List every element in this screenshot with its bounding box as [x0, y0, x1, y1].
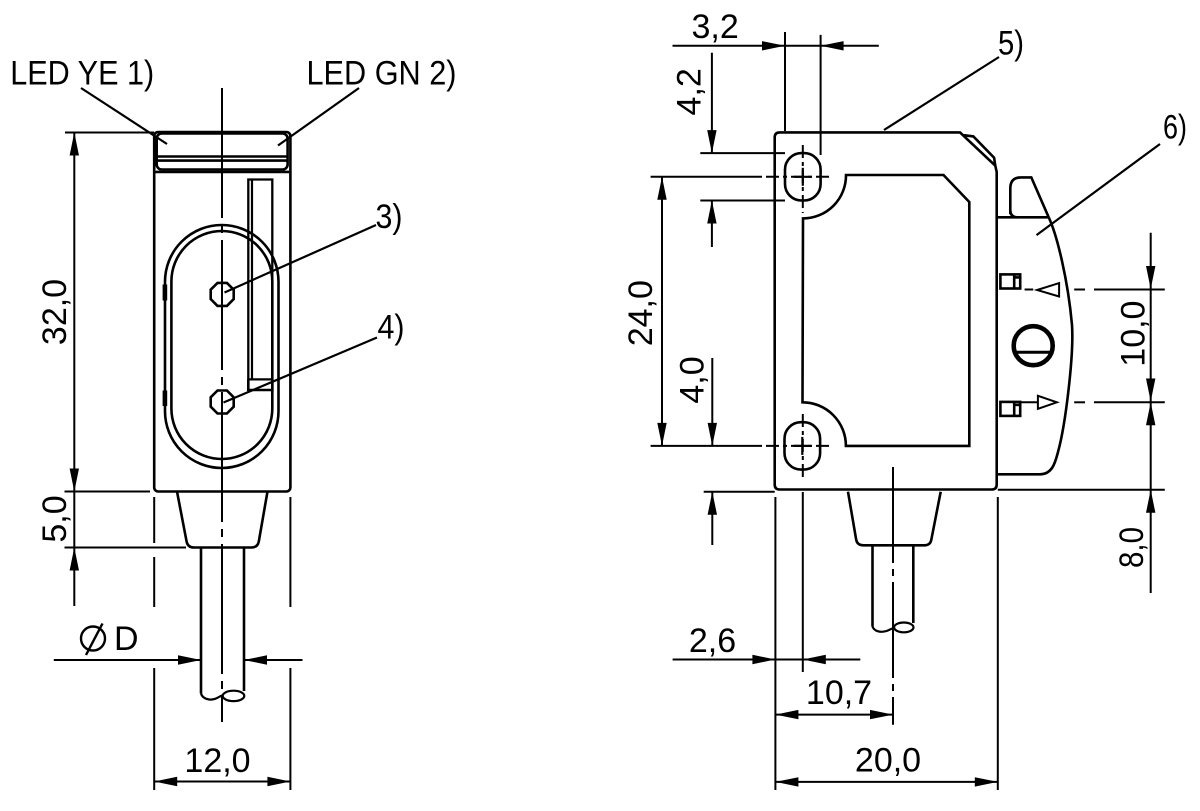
svg-text:6): 6) [1163, 109, 1187, 147]
svg-text:D: D [114, 620, 139, 658]
svg-text:3,2: 3,2 [692, 8, 739, 46]
svg-text:3): 3) [376, 198, 403, 236]
svg-text:20,0: 20,0 [855, 742, 921, 780]
svg-text:LED GN 2): LED GN 2) [307, 55, 457, 93]
svg-text:4,2: 4,2 [671, 68, 709, 115]
svg-text:4,0: 4,0 [674, 356, 712, 403]
svg-text:4): 4) [378, 309, 405, 347]
svg-text:5): 5) [998, 25, 1024, 63]
svg-text:8,0: 8,0 [1113, 527, 1151, 568]
svg-text:5,0: 5,0 [36, 495, 74, 542]
svg-text:24,0: 24,0 [622, 280, 660, 346]
svg-text:10,0: 10,0 [1114, 301, 1152, 367]
svg-text:12,0: 12,0 [184, 742, 250, 780]
svg-text:LED YE 1): LED YE 1) [10, 55, 154, 93]
svg-text:32,0: 32,0 [36, 279, 74, 345]
svg-text:10,7: 10,7 [806, 674, 872, 712]
svg-text:2,6: 2,6 [689, 622, 736, 660]
